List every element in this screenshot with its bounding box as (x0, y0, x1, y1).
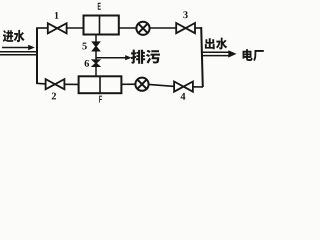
blowdown line with arrow (96, 57, 128, 59)
label 4 (181, 93, 186, 100)
wire flowmeter to valve 4 (149, 84, 175, 86)
label 电厂 (power plant) (243, 49, 253, 61)
label 出水 (outlet water) (205, 38, 215, 49)
label 5 (82, 43, 86, 50)
label 进水 (inlet water) (3, 30, 14, 42)
wire blowdown drop from filter E (95, 35, 97, 43)
wire flowmeter to valve 3 (150, 27, 177, 29)
inlet flow arrow (2, 47, 31, 49)
wire bottom branch: header to valve 2 (36, 82, 46, 85)
wire filter E to flowmeter (119, 27, 137, 29)
wire top branch: header to valve 1 (36, 27, 48, 29)
wire valve 4 to outlet header (192, 86, 203, 88)
valve 5 (93, 42, 100, 51)
label 1 (55, 12, 59, 19)
label 6 (85, 60, 89, 67)
wire valve 5 to blowdown tee (95, 51, 97, 60)
flowmeter bottom (circle-X) (135, 78, 148, 91)
valve 4 (174, 82, 193, 92)
label F (99, 96, 102, 103)
wire filter F to flowmeter (121, 83, 135, 85)
valve 6 (93, 60, 100, 66)
outlet pipe double arrow (202, 51, 229, 53)
flowmeter top (circle-X) (136, 22, 149, 35)
valve 2 (46, 79, 65, 89)
inlet pipe double line (0, 51, 37, 53)
label 排污 (blowdown) (131, 50, 145, 64)
wire valve 3 to outlet header (195, 27, 202, 29)
wire valve 2 to filter F (64, 83, 79, 85)
wire inlet vertical header (36, 28, 38, 84)
filter E (84, 16, 119, 35)
wire valve 6 to filter F (95, 66, 97, 76)
label 2 (52, 93, 56, 100)
wire outlet vertical header (201, 27, 203, 87)
filter F (79, 76, 122, 93)
label E (98, 3, 101, 10)
label 3 (183, 11, 187, 18)
valve 3 (176, 23, 195, 33)
wire valve 1 to filter E (67, 27, 85, 29)
valve 1 (48, 23, 67, 33)
